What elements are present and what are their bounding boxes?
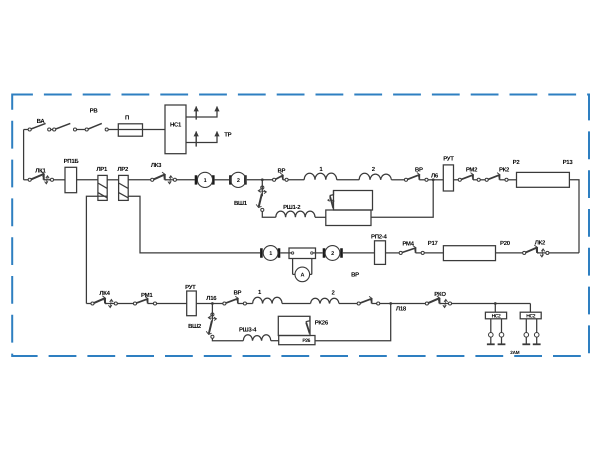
wire R13 to right riser [569,180,579,253]
svg-text:ЛК3: ЛК3 [151,162,162,169]
box HC2 second [520,312,541,319]
arrow stem upper 1 [195,107,197,120]
ammeter stub left [293,273,295,275]
contactor LK3 blade tip [162,172,165,177]
wire VSh2 lower [212,338,243,340]
switch BP2 blade tip [417,173,420,178]
ground HC2 box1 left [487,343,495,345]
motor M2 brush bars [230,175,245,184]
HC2 box1 leg right [501,319,503,333]
wire [77,129,86,131]
switch PB blade [88,123,102,129]
ammeter leg right [311,259,313,275]
wire R26 to node L18 [315,304,391,341]
contact PM4 c1 [399,251,402,254]
switch PM4 blade tip [413,246,416,251]
box RUT bottom [187,291,197,316]
svg-text:РП1Б: РП1Б [64,158,80,165]
shunt terminal right [311,252,313,254]
wire coil1 to coil2 [337,179,360,181]
motor M3 circle [263,246,278,261]
contact BA c2 [48,128,51,131]
HC2 box2 leg right lower [536,337,538,344]
bolt LK2 [540,249,545,257]
wire PM1 to RUT [157,303,187,305]
contactor RKO blade [428,298,439,303]
wire PK2 tail [500,179,506,181]
svg-text:ВШ1: ВШ1 [234,200,248,207]
wire VSh2 upper segment [211,313,213,321]
contact LK3 c2 [173,178,176,181]
wire LK3 tail [165,179,174,181]
bolt VSh2 [208,316,216,321]
wire LR2 tap riser to mid row [128,196,260,253]
contact BP2 c1 [404,178,407,181]
contact PM1 c2 [153,302,156,305]
switch VSh1 blade tip [256,204,261,207]
svg-text:Р13: Р13 [563,159,574,166]
switch VSh1 blade [259,194,262,207]
contact LK4 c2 [114,302,117,305]
wire M1 to M2 [215,179,230,181]
HC2 box2 lamp left [524,333,529,338]
ammeter stub right [310,273,312,275]
motor M4 brush bars [324,248,342,257]
wire coil2 to switch [339,303,357,305]
svg-text:ВА: ВА [37,118,46,125]
junction node L6 [432,178,435,181]
contact PK2 c1 [485,178,488,181]
svg-text:2: 2 [331,251,334,257]
wire R20 to LK2 [496,252,523,254]
contact BA c1 [28,128,31,131]
wire shunt stub left [289,252,292,254]
inductor RSh1-2 [276,211,315,217]
bolt VSh1 [258,189,266,194]
svg-text:ЛК2: ЛК2 [535,240,546,247]
wire LR2 to LK3 [128,179,151,181]
bolt RK upper box [328,199,334,203]
ground HC2 box1 right [498,343,506,345]
svg-text:РМ1: РМ1 [141,292,153,299]
svg-text:РВ: РВ [90,108,99,115]
bolt LK4 [109,300,114,308]
contact PM4 c2 [421,251,424,254]
svg-text:ВР: ВР [278,167,286,174]
contactor RKO blade tip [437,296,440,301]
contact KSh1 c2 [285,178,288,181]
motor M1 circle [197,172,212,187]
switch BP2 blade [407,175,419,180]
svg-text:Р26: Р26 [302,338,310,344]
box RP1B [65,167,77,192]
contact KSh1 c1 [273,178,276,181]
switch BP bottom blade [226,299,238,304]
switch PK2 blade tip [497,173,500,178]
wire [439,303,441,305]
wire [165,179,167,181]
inductor RSh3-4 [243,335,270,341]
inductor coil 2 bottom [311,298,340,303]
contact BP bottom c1 [223,302,226,305]
switch RK hook [330,191,334,196]
contact bottom unnamed c1 [357,302,360,305]
arrowhead lower 1 [194,131,199,136]
box LR2 [119,175,129,200]
switch BA blade 1 [31,123,46,129]
wire LR1 tap left riser [86,196,98,303]
wire BP bottom tail [238,303,244,305]
svg-text:Л16: Л16 [206,295,217,302]
wire to RP1B [54,179,65,181]
svg-text:РУТ: РУТ [185,284,196,291]
contact PM1 c1 [133,302,136,305]
switch bottom unnamed blade [360,299,372,304]
wire left vertical top [23,130,25,180]
wire PM4 to R17 [424,252,443,254]
box LR2 hatch [119,183,129,198]
svg-text:ВР: ВР [415,167,423,174]
svg-text:ЛР2: ЛР2 [117,166,129,173]
contact BP bottom c2 [243,302,246,305]
wire to motor1 [177,179,195,181]
switch VSh2 blade [209,321,212,334]
wire bottom row start [86,303,91,305]
wire PM4 tail [416,252,422,254]
ammeter leg left [292,259,294,275]
HC2 box1 leg left lower [490,337,492,344]
contact PB c2 [105,128,108,131]
wire shunt stub right [313,252,316,254]
contact PM2 c1 [458,178,461,181]
wire HC1 lower output [186,132,217,143]
contact VSh2 c1 [211,313,214,316]
switch bottom unnamed blade tip [369,296,372,301]
wire to fuse [108,129,118,131]
switch PM1 blade [136,299,147,304]
switch KSh1 blade tip [280,173,283,178]
wire coil1 to coil2 [282,303,311,305]
ammeter circle [295,267,310,282]
switch PM2 blade tip [471,173,474,178]
HC2 box2 leg right [536,319,538,333]
wire RUT to BP [196,303,223,305]
contact VSh1 c1 [261,186,264,189]
HC2 box2 lamp right [534,333,539,338]
wire LK4 tail [105,303,114,305]
wire [51,129,53,131]
wire BP2 tail [419,179,425,181]
box HC1 [165,105,186,154]
wire RSh1-2 to RR box [315,216,326,218]
contact PM2 c2 [477,178,480,181]
contact BA c3 [53,128,56,131]
svg-text:НС1: НС1 [170,122,182,129]
switch VSh2 blade tip [206,331,211,334]
contactor LK2 blade tip [534,245,537,250]
HC2 box2 leg left lower [525,337,527,344]
contact PB c1 [85,128,88,131]
wire BP2 to RUT [428,179,443,181]
svg-text:2: 2 [237,178,240,184]
contact bottom unnamed c2 [377,302,380,305]
contact LK2 c1 [523,251,526,254]
contact RKO c1 [425,302,428,305]
svg-text:РК2: РК2 [499,166,510,173]
inductor coil 2 row2 [359,173,391,180]
junction node after M2 [261,178,264,181]
wire RUT to PM2 [454,179,459,181]
wire LK2 to right riser [549,252,579,254]
svg-text:Р17: Р17 [428,240,439,247]
wire M3 to shunt [280,252,289,254]
wire coil2 to BP2 [391,179,404,181]
contact LK4 c1 [91,302,94,305]
contact VSh1 c2 [261,208,264,211]
shunt box [289,248,316,259]
contact RKO c2 [448,302,451,305]
svg-text:НС2: НС2 [526,313,535,319]
switch BA blade 2 [56,123,71,129]
wire VSh1 drop [261,180,263,186]
contact LK2 c2 [546,251,549,254]
box LR1 hatch [98,183,107,198]
svg-text:Р20: Р20 [500,240,511,247]
switch RK26 blade [306,322,310,333]
fuse P through wire [118,129,165,131]
contact VSh2 c2 [211,335,214,338]
motor M2 circle [231,172,246,187]
switch PM1 blade tip [145,297,148,302]
wire RKO to HC2 branches [452,303,531,305]
svg-text:РК26: РК26 [315,320,329,327]
contactor LK4 blade [94,298,105,303]
box LR1 [98,175,107,200]
svg-text:2АМ: 2АМ [510,350,519,355]
svg-text:1: 1 [269,251,272,257]
fuse P body [118,124,142,136]
wire M2 to junction [247,179,273,181]
wire PM2 tail [473,179,477,181]
wire [480,179,485,181]
wire [49,179,51,181]
wire LR1 tap [98,195,107,197]
arrowhead upper 1 [194,106,199,111]
svg-text:ЛР1: ЛР1 [96,166,108,173]
box RUT top [443,165,453,191]
wire LK4 to PM1 [117,303,133,305]
HC2 box1 lamp left [489,333,494,338]
svg-text:РШ1-2: РШ1-2 [283,204,301,211]
HC2 box1 leg left [490,319,492,333]
contactor LK1 blade tip [41,172,44,177]
wire drop to HC2 box1 [494,304,496,313]
HC2 box1 leg right lower [501,337,503,344]
svg-text:ТР: ТР [224,132,231,139]
contactor LK3 blade [154,175,165,180]
wire RP2-4 to PM4 [386,252,400,254]
border frame [12,95,589,357]
svg-text:А: А [300,273,304,279]
wire bottom unnamed tail [372,303,377,305]
svg-text:РКО: РКО [434,291,446,298]
wire VSh2 drop [211,304,213,313]
motor M1 brush bars [196,175,213,184]
wire M4 to RP2-4 [343,252,375,254]
svg-text:РШ3-4: РШ3-4 [239,326,257,333]
junction node L18 [389,302,392,305]
svg-text:ВР: ВР [234,290,242,297]
wire RKO tail [439,303,448,305]
box RR upper [334,191,373,211]
wire LR1 to LR2 [107,179,118,181]
contact LK1 c1 [28,178,31,181]
contactor LK1 blade [31,174,44,180]
wire VSh1 lower [262,212,276,218]
switch PM4 blade [402,248,415,253]
switch RK26 hook [306,317,310,322]
HC2 box2 leg left [525,319,527,333]
box RK26 upper [278,316,310,335]
svg-text:ВР: ВР [351,272,359,279]
svg-text:НС2: НС2 [492,313,501,319]
wire RR to node L6 [371,180,433,218]
svg-text:РП2-4: РП2-4 [371,233,387,240]
inductor coil 1 bottom [253,297,282,303]
box RR lower [326,210,371,226]
svg-text:Р2: Р2 [513,159,521,166]
wire PK2 to R2 [508,179,516,181]
wire drop to HC2 box2 [529,304,531,313]
svg-text:Л6: Л6 [431,172,439,179]
contact LK3 c1 [151,178,154,181]
switch PM2 blade [461,175,473,180]
wire top row start [24,129,29,131]
wire to node L18 [380,303,426,305]
contact BA c4 [73,128,76,131]
contactor LK2 blade [526,248,537,253]
wire to coil 1 [288,179,304,181]
ground HC2 box2 right [533,343,541,345]
switch PK2 blade [488,175,499,180]
wire VSh1 upper segment [261,186,263,196]
wire BP to coil1 [247,303,253,305]
contactor LK4 blade tip [102,296,105,301]
svg-text:РМ2: РМ2 [466,166,478,173]
resistor R17-R20 box [443,246,495,261]
wire [105,303,107,305]
arrowhead lower 2 [214,131,219,136]
junction node HC2 branch [494,302,497,305]
inductor coil 1 row2 [304,173,337,180]
box RP2-4 [375,241,386,265]
ground HC2 box2 left [522,343,530,345]
contact PK2 c2 [505,178,508,181]
svg-text:П: П [125,115,129,122]
wire LK1 tail [44,179,51,181]
wire LK2 tail [537,252,546,254]
svg-text:ЛК1: ЛК1 [35,167,46,174]
switch BP bottom blade tip [235,296,238,301]
arrow stem lower 1 [195,132,197,147]
box R26 lower [279,336,315,345]
contact LK1 c2 [50,178,53,181]
svg-text:РМ4: РМ4 [402,241,414,248]
arrowhead upper 2 [214,106,219,111]
switch RK blade [330,196,333,208]
motor M4 circle [325,246,340,261]
wire KSh1 tail [283,179,285,181]
svg-text:ЛК4: ЛК4 [99,290,110,297]
svg-text:ВШ2: ВШ2 [188,323,202,330]
bolt LK3 [168,176,173,184]
svg-text:1: 1 [204,178,207,184]
wire PM1 tail [148,303,154,305]
junction node L16 [211,302,214,305]
wire [537,252,539,254]
switch KSh1 blade [275,175,282,179]
contact BP2 c2 [425,178,428,181]
bolt RKO [443,300,448,308]
wire HC1 upper output [186,107,217,118]
wire shunt to M4 [316,252,323,254]
bolt LK1 [45,176,50,184]
svg-text:Л18: Л18 [396,306,407,313]
svg-text:РУТ: РУТ [443,156,454,163]
resistor R2-R13 box [517,172,570,187]
wire RP1B to LR1 [77,179,98,181]
HC2 box1 lamp right [499,333,504,338]
wire row2 start [24,179,29,181]
wire RSh3-4 to R26 [271,340,279,342]
box HC2 first [485,312,506,319]
wire [44,179,46,181]
motor M3 brush bars [261,248,279,257]
shunt terminal left [291,252,293,254]
